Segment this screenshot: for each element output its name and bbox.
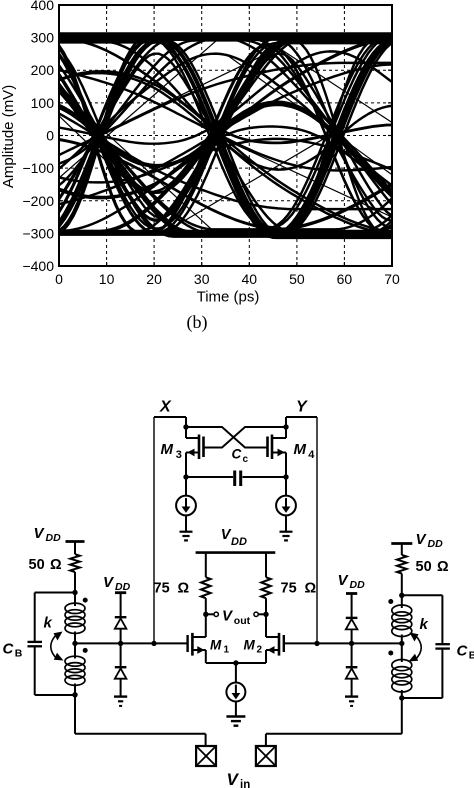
svg-text:−100: −100 xyxy=(22,160,54,176)
svg-text:Ω: Ω xyxy=(437,559,449,575)
svg-text:C: C xyxy=(232,447,242,462)
svg-text:M: M xyxy=(161,441,174,458)
svg-text:3: 3 xyxy=(176,449,182,461)
svg-text:50: 50 xyxy=(289,271,305,287)
svg-text:M: M xyxy=(244,638,256,653)
svg-text:Ω: Ω xyxy=(305,581,317,597)
svg-text:DD: DD xyxy=(428,538,444,550)
svg-text:C: C xyxy=(3,641,15,658)
svg-text:0: 0 xyxy=(46,128,54,144)
svg-text:60: 60 xyxy=(337,271,353,287)
svg-text:(b): (b) xyxy=(187,312,208,333)
svg-text:M: M xyxy=(210,638,222,653)
svg-text:k: k xyxy=(44,615,53,632)
svg-text:M: M xyxy=(294,441,307,458)
svg-text:0: 0 xyxy=(55,271,63,287)
svg-text:DD: DD xyxy=(115,581,131,593)
svg-text:X: X xyxy=(159,399,172,416)
svg-text:4: 4 xyxy=(308,449,315,461)
svg-text:75: 75 xyxy=(281,581,297,597)
svg-text:−300: −300 xyxy=(22,225,54,241)
svg-text:30: 30 xyxy=(194,271,210,287)
svg-text:20: 20 xyxy=(146,271,162,287)
svg-text:100: 100 xyxy=(31,95,55,111)
svg-text:k: k xyxy=(420,616,429,633)
svg-text:2: 2 xyxy=(257,645,263,656)
svg-text:70: 70 xyxy=(384,271,400,287)
svg-text:10: 10 xyxy=(99,271,115,287)
svg-text:Ω: Ω xyxy=(178,581,190,597)
svg-text:−400: −400 xyxy=(22,258,54,274)
svg-text:out: out xyxy=(234,615,251,627)
svg-text:Time (ps): Time (ps) xyxy=(197,289,260,306)
svg-text:DD: DD xyxy=(46,532,62,544)
svg-text:400: 400 xyxy=(31,0,55,13)
svg-text:B: B xyxy=(469,650,474,662)
svg-text:200: 200 xyxy=(31,62,55,78)
svg-text:−200: −200 xyxy=(22,193,54,209)
svg-text:1: 1 xyxy=(224,645,230,656)
svg-text:75: 75 xyxy=(154,581,170,597)
svg-text:C: C xyxy=(457,643,469,660)
svg-text:V: V xyxy=(227,770,240,788)
svg-text:50: 50 xyxy=(416,559,432,575)
svg-text:in: in xyxy=(240,779,250,788)
svg-text:Y: Y xyxy=(296,399,308,416)
svg-text:300: 300 xyxy=(31,30,55,46)
svg-text:Amplitude (mV): Amplitude (mV) xyxy=(0,85,17,188)
svg-text:B: B xyxy=(15,648,23,660)
svg-text:Ω: Ω xyxy=(50,557,62,573)
svg-text:DD: DD xyxy=(350,579,366,591)
svg-text:DD: DD xyxy=(231,536,247,548)
svg-text:40: 40 xyxy=(242,271,258,287)
svg-text:c: c xyxy=(243,454,249,465)
svg-text:50: 50 xyxy=(29,557,45,573)
